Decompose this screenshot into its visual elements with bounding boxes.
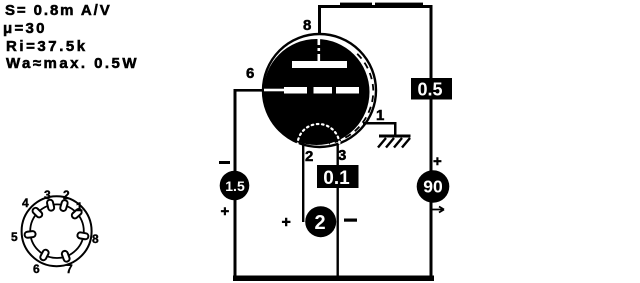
metallization dashed arc	[329, 54, 374, 144]
svg-text:+: +	[221, 203, 230, 220]
svg-text:1.5: 1.5	[225, 178, 245, 194]
battery 1.5V grid bias	[220, 171, 250, 201]
value box 0.1 cathode	[317, 165, 359, 189]
battery 90V	[417, 170, 450, 203]
svg-text:Wa≈max. 0.5W: Wa≈max. 0.5W	[6, 55, 139, 72]
tube V envelope	[263, 34, 376, 147]
svg-text:2: 2	[63, 188, 70, 202]
svg-text:7: 7	[66, 262, 73, 276]
svg-text:μ=30: μ=30	[3, 20, 47, 37]
arrow below 90	[430, 207, 444, 213]
svg-text:90: 90	[423, 177, 443, 197]
base pin 7	[61, 250, 70, 262]
ground symbol	[378, 135, 411, 148]
svg-text:6: 6	[33, 262, 40, 276]
minus sign grid bias	[219, 161, 230, 164]
base pin 5	[24, 231, 36, 238]
svg-text:+: +	[433, 153, 442, 170]
svg-text:2: 2	[314, 212, 325, 234]
svg-text:5: 5	[11, 230, 18, 244]
svg-text:3: 3	[44, 188, 51, 202]
base diagram outer circle	[22, 196, 92, 266]
wire pin 2 lead	[302, 143, 304, 222]
svg-text:0.5: 0.5	[417, 80, 442, 100]
base pin 2	[60, 199, 69, 211]
tube interior fill	[264, 39, 370, 145]
value box 0.5 anode voltage	[411, 78, 452, 100]
svg-text:8: 8	[92, 232, 99, 246]
svg-text:Ri=37.5k: Ri=37.5k	[6, 38, 88, 55]
svg-text:3: 3	[338, 147, 346, 164]
svg-text:S= 0.8m A/V: S= 0.8m A/V	[5, 2, 112, 19]
base diagram inner circle	[30, 204, 84, 258]
svg-text:1: 1	[376, 107, 384, 124]
grid lead inside	[264, 89, 284, 92]
base pin 4	[31, 207, 43, 219]
anode lead dash-dot	[318, 38, 321, 61]
wire pin 3 lead	[337, 143, 339, 278]
wire pin 1 lead	[363, 122, 397, 136]
svg-text:2: 2	[305, 148, 313, 165]
svg-text:1: 1	[76, 200, 83, 214]
anode plate	[292, 61, 347, 68]
svg-text:8: 8	[303, 17, 311, 34]
svg-text:0.1: 0.1	[323, 168, 350, 189]
wire left vertical	[234, 89, 237, 276]
wire right vertical	[430, 5, 433, 276]
wire pin 6 grid lead	[234, 89, 264, 92]
grid dashes	[284, 87, 359, 94]
base pin 1	[71, 208, 83, 220]
svg-text:4: 4	[22, 196, 29, 210]
cathode dome dotted	[298, 124, 340, 145]
wire pin 8 lead top	[318, 5, 321, 35]
wire top horizontal	[319, 3, 432, 8]
svg-text:6: 6	[246, 65, 254, 82]
base pin 8	[77, 232, 89, 240]
base pin 3	[46, 199, 54, 211]
minus sign heater	[344, 219, 357, 222]
base pin 6	[39, 249, 49, 262]
ground bus bottom bar	[233, 276, 434, 282]
svg-text:+: +	[282, 214, 291, 231]
battery 2V heater	[305, 206, 336, 237]
